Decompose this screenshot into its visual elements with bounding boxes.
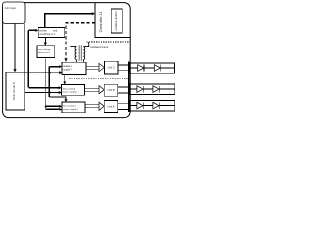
svg-text:Controller 11: Controller 11 xyxy=(99,12,103,33)
non-isolated power supply 2 (row 3 box) xyxy=(62,102,85,113)
thick right bus xyxy=(128,61,130,112)
dashed control line controller to isolated supply xyxy=(66,23,95,58)
isolated power supply 7 (row 1 box) xyxy=(62,62,86,74)
arrow into row2 lower xyxy=(49,92,59,94)
row3 upper input xyxy=(46,105,60,107)
box A: rectifier smoothing circuit xyxy=(38,28,65,38)
row1 upper input arrow xyxy=(49,66,59,68)
leads xyxy=(70,42,88,62)
block arrow row2 xyxy=(85,86,105,94)
svg-text:power supply 1: power supply 1 xyxy=(63,91,78,94)
oscillation circuit 12 (inner box) xyxy=(111,9,122,33)
arrow bus A into box A xyxy=(28,29,36,31)
svg-text:Non-isolated: Non-isolated xyxy=(63,87,76,90)
wire box A to controller xyxy=(45,14,92,28)
junction dot xyxy=(48,91,50,93)
diode D6 xyxy=(153,102,159,109)
svg-text:detect circ 4: detect circ 4 xyxy=(38,51,51,54)
svg-text:oscillation circuit 12: oscillation circuit 12 xyxy=(115,11,118,31)
non-isolated power supply 1 (row 2 box) xyxy=(62,85,85,96)
core xyxy=(78,45,80,60)
row3 lower input xyxy=(46,108,60,110)
svg-text:error voltage: error voltage xyxy=(38,48,51,51)
box B: detection circuit xyxy=(37,46,55,58)
unit B output wires xyxy=(118,87,129,93)
outer frame (power supply unit) xyxy=(3,3,131,118)
svg-text:smoothing cir 2: smoothing cir 2 xyxy=(39,33,55,36)
diode D4 xyxy=(153,86,159,93)
PFC circuit 5 xyxy=(6,72,25,110)
row1 lower input wire from PFC xyxy=(25,72,60,74)
svg-text:power supply 2: power supply 2 xyxy=(63,108,78,111)
svg-text:supply 7: supply 7 xyxy=(63,69,72,71)
svg-text:Unit B: Unit B xyxy=(107,88,114,92)
AC input box xyxy=(3,2,25,24)
secondary winding xyxy=(83,47,84,60)
LED string row 3 xyxy=(130,100,175,111)
bus C bottom turn to row3 top xyxy=(49,97,66,100)
wire AC line 1 to PFC xyxy=(14,24,16,70)
unit C output wires xyxy=(118,65,129,71)
arrow bus A into row2 upper xyxy=(28,87,59,89)
wire box A to box B xyxy=(44,37,46,43)
bus A (thick, from rectifier) xyxy=(27,30,29,87)
row2 top stub arrow xyxy=(64,75,66,82)
dashed separator 2 xyxy=(69,77,130,79)
dashed separator 1 (isolation boundary) xyxy=(86,41,129,43)
bus B (thin, from box B) xyxy=(45,59,47,110)
diode D2 xyxy=(154,65,160,72)
block arrow row3 xyxy=(85,102,104,110)
svg-text:Unit C: Unit C xyxy=(108,66,115,70)
diode D1 xyxy=(138,65,144,72)
controller 11 box xyxy=(95,3,130,38)
diode D3 xyxy=(137,86,143,93)
svg-text:rectifier: rectifier xyxy=(39,29,47,32)
LED string row 1 xyxy=(130,63,175,73)
svg-text:Isolated: Isolated xyxy=(63,65,72,68)
bus C (thick, PFC output) xyxy=(48,67,50,97)
svg-text:Isolated trans: Isolated trans xyxy=(90,45,109,49)
junction dot xyxy=(45,105,47,107)
svg-text:AC input: AC input xyxy=(5,6,16,10)
unit C box xyxy=(105,61,118,74)
PFC output 2 wire xyxy=(25,92,49,94)
svg-text:PFC circuit 5: PFC circuit 5 xyxy=(12,82,16,100)
wire AC line 2 to PFC xyxy=(24,24,26,73)
svg-text:Non-isolated: Non-isolated xyxy=(63,105,76,108)
unit B box xyxy=(104,84,117,96)
primary winding xyxy=(75,47,76,60)
transformer T (isolated trans) xyxy=(70,42,88,62)
unit A box xyxy=(104,101,117,113)
svg-text:Unit A: Unit A xyxy=(108,105,115,109)
diode D5 xyxy=(137,102,143,109)
unit A output wires xyxy=(118,103,129,109)
junction dot xyxy=(48,72,50,74)
LED string row 2 xyxy=(130,84,175,95)
block arrow row1 xyxy=(86,63,104,71)
